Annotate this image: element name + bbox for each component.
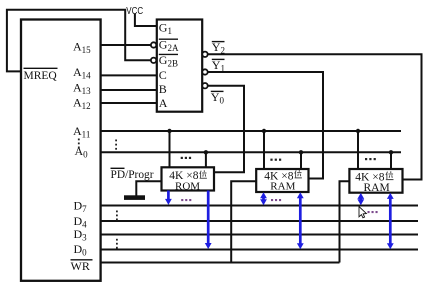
svg-text:MREQ: MREQ: [24, 70, 58, 82]
data line RAM1 D7: [262, 196, 265, 202]
junction dot A0-ROM: [204, 150, 208, 154]
bus D7: [101, 205, 418, 207]
wire A14 to C: [101, 74, 157, 76]
pin bubble Y1: [202, 69, 207, 74]
svg-text:C: C: [159, 68, 167, 82]
svg-text:RAM: RAM: [270, 180, 295, 192]
wire A15 to G2A: [101, 44, 151, 46]
ground bar: [124, 195, 145, 200]
ROM chip: [162, 167, 215, 190]
CJK glyph wei in RAM1 label: [295, 170, 302, 178]
wire MREQ loop to G2B: [7, 10, 151, 72]
data line RAM2 D0: [389, 196, 392, 245]
riser A11 to ROM: [169, 131, 171, 167]
svg-text:A: A: [159, 96, 168, 110]
junction dot A0-RAM1: [299, 150, 303, 154]
wire A13 to B: [101, 89, 157, 91]
overline G2B: [159, 53, 178, 55]
CPU block: [21, 20, 101, 281]
riser A11 to RAM1: [263, 131, 265, 169]
riser A0 to ROM: [205, 152, 207, 167]
ellipsis dots black above RAM2: [365, 158, 367, 160]
bus A0: [101, 151, 401, 153]
bus D0: [101, 249, 418, 251]
data line ROM D0: [207, 191, 210, 246]
pin bubble Y0: [202, 83, 207, 88]
junction dot A11-RAM2: [356, 129, 360, 133]
ellipsis dots purple below RAM2: [368, 211, 370, 213]
vertical ellipsis between A11 and A0 buses: [78, 139, 118, 249]
junction dot A11-RAM1: [262, 129, 266, 133]
junction dot A0-RAM2: [389, 150, 393, 154]
wire Y0 to ROM CS: [208, 86, 244, 173]
data line ROM D7: [167, 191, 170, 202]
overline WR: [71, 259, 93, 261]
svg-text:B: B: [159, 82, 167, 96]
RAM chip 2: [349, 169, 402, 193]
wire VCC to G1: [135, 14, 157, 27]
decoder U1: [157, 20, 202, 112]
riser A0 to RAM1: [300, 152, 302, 169]
wire WR to RAM1 WE: [231, 181, 256, 262]
CJK glyph wei in RAM2 label: [386, 171, 394, 179]
riser A11 to RAM2: [357, 131, 359, 169]
pin bubble G2B: [151, 58, 156, 63]
RAM chip 1: [256, 169, 308, 192]
bus A11: [101, 130, 401, 132]
overline Y1: [212, 58, 225, 60]
svg-text:PD/Progr: PD/Progr: [111, 169, 154, 181]
bus D3: [101, 234, 418, 236]
CJK glyph wei in ROM label: [200, 170, 394, 180]
pin bubble Y2: [202, 52, 207, 57]
vertical ellipsis between D3 D0: [116, 239, 118, 241]
wire Y2 to RAM2 CS: [208, 54, 422, 179]
data line RAM1 D0: [299, 196, 302, 246]
decoder labels: [126, 6, 225, 110]
overline PD: [111, 167, 125, 169]
overline Y0: [211, 90, 224, 92]
svg-text:WR: WR: [71, 259, 90, 273]
ellipsis dots purple below RAM1: [271, 199, 273, 201]
ellipsis dots black above ROM: [181, 157, 376, 161]
junction dot A11-ROM: [167, 129, 171, 133]
pin bubble G2A: [151, 42, 156, 47]
svg-text:RAM: RAM: [364, 182, 390, 194]
svg-text:ROM: ROM: [175, 180, 200, 192]
bus WR: [101, 262, 340, 264]
wire A12 to A: [101, 102, 157, 104]
riser A0 to RAM2: [390, 152, 392, 169]
bus D4: [101, 220, 418, 222]
wire WR to RAM2 WE: [340, 181, 350, 262]
wire PD to ground: [136, 181, 161, 195]
data line RAM2 D7: [359, 196, 362, 201]
wire Y1 to RAM1 CS: [208, 72, 323, 179]
ellipsis dots black above RAM1: [270, 159, 272, 161]
ellipsis dots purple below ROM: [181, 199, 377, 213]
svg-text:VCC: VCC: [126, 6, 143, 17]
CPU pin labels: [24, 40, 93, 274]
mouse cursor: [359, 207, 366, 218]
overline Y2: [212, 41, 225, 43]
vertical ellipsis in CPU box A11-A0: [78, 139, 80, 141]
memory chip labels: [111, 168, 390, 194]
vertical ellipsis between D7 D4: [116, 211, 118, 213]
overline MREQ: [24, 67, 58, 69]
blue data arrows: [165, 191, 394, 250]
overline G2A: [159, 38, 178, 40]
